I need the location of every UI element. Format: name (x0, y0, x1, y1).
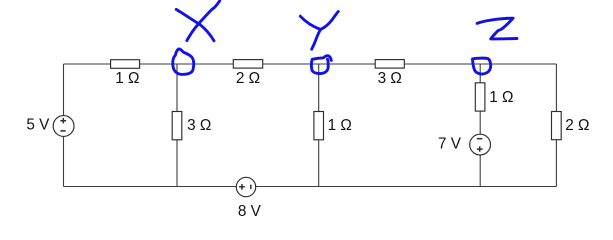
annotation letter Z (477, 18, 517, 39)
wire node X branch (176, 64, 178, 187)
5V source minus terminal (60, 130, 65, 132)
svg-text:1 Ω: 1 Ω (328, 117, 352, 134)
7V source minus terminal (477, 138, 482, 140)
resistor 2 ohm (right branch, vertical) (552, 112, 562, 140)
annotation letter X stroke 2 (187, 1, 220, 41)
annotation node X circle (173, 49, 194, 74)
voltage source V3 7V circle (470, 134, 491, 155)
wire right branch (555, 64, 557, 187)
resistor 1 ohm (node Z branch, vertical) (475, 83, 485, 111)
svg-text:1 Ω: 1 Ω (115, 70, 139, 87)
resistor 2 ohm (top middle, horizontal) (233, 60, 262, 69)
svg-text:1 Ω: 1 Ω (489, 89, 513, 106)
annotation letter Y right arm and stem (312, 12, 339, 50)
annotation node Y circle (311, 56, 331, 74)
wire node Z branch (479, 64, 481, 187)
7V source plus terminal (477, 146, 483, 151)
svg-text:3 Ω: 3 Ω (187, 117, 211, 134)
svg-text:5 V: 5 V (26, 117, 50, 134)
8V source minus terminal (rotated) (250, 185, 252, 189)
annotation letter Y left arm (300, 16, 320, 29)
resistor 1 ohm (node Y branch, vertical) (314, 112, 324, 140)
svg-text:3 Ω: 3 Ω (378, 70, 402, 87)
svg-text:7 V: 7 V (438, 136, 462, 153)
resistor 3 ohm (node X branch, vertical) (172, 112, 182, 140)
8V source plus terminal (239, 184, 245, 190)
5V source plus terminal (60, 118, 66, 124)
svg-text:2 Ω: 2 Ω (236, 70, 260, 87)
wire bottom rail (64, 186, 557, 188)
wire left branch (63, 64, 65, 187)
wire node Y branch (318, 64, 320, 187)
voltage source V1 5V circle (53, 116, 74, 137)
annotation letter X stroke 1 (176, 9, 214, 40)
wire top rail (64, 63, 557, 65)
resistor 1 ohm (top left, horizontal) (111, 60, 140, 69)
svg-text:8 V: 8 V (238, 203, 262, 220)
voltage source V2 8V circle (236, 177, 255, 196)
svg-text:2 Ω: 2 Ω (565, 117, 589, 134)
resistor 3 ohm (top right, horizontal) (375, 60, 404, 69)
annotation node Z circle (473, 58, 491, 74)
